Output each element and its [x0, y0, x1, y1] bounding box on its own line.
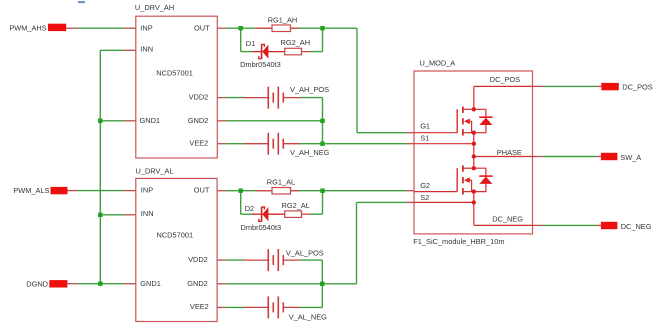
svg-text:PWM_ALS: PWM_ALS — [13, 186, 49, 195]
wire module PHASE internal — [474, 156, 533, 158]
wire VDD2_AL — [217, 259, 322, 261]
node Q1 drain — [472, 107, 476, 111]
transistor Q2 low-side MOSFET — [457, 165, 474, 194]
svg-text:DGND: DGND — [26, 279, 48, 288]
wire RG2_AH branch — [241, 28, 323, 51]
blue cursor mark top — [78, 1, 85, 3]
battery V_AH_NEG — [244, 133, 330, 158]
wire VEE2_AL — [217, 306, 322, 308]
svg-text:VEE2: VEE2 — [189, 138, 208, 147]
node Q1 source — [472, 131, 476, 135]
svg-text:G1: G1 — [420, 122, 430, 131]
svg-text:OUT: OUT — [194, 186, 210, 195]
svg-text:V_AL_POS: V_AL_POS — [286, 248, 324, 257]
wire module source2 column — [473, 192, 475, 226]
svg-text:G2: G2 — [420, 181, 430, 190]
wire DC_POS to port — [533, 85, 602, 87]
svg-text:GND2: GND2 — [188, 116, 209, 125]
svg-text:DC_NEG: DC_NEG — [621, 222, 652, 231]
svg-text:OUT: OUT — [194, 23, 210, 32]
svg-text:INP: INP — [141, 186, 153, 195]
op-amp U_DRV_AH gate driver box — [135, 3, 217, 158]
svg-text:DC_NEG: DC_NEG — [492, 214, 523, 223]
wire OUT_AH net — [217, 28, 414, 133]
wire module DC_POS internal — [474, 86, 533, 109]
wire S1 net — [323, 143, 415, 145]
diode D2 Dmbr0540t3 schottky — [241, 204, 285, 232]
port SW_A — [601, 153, 641, 162]
svg-text:NCD57001: NCD57001 — [157, 231, 194, 240]
wire module G1 internal — [414, 132, 457, 134]
wire DGND to GND1 — [67, 283, 135, 285]
wire RG2_AL branch — [241, 191, 323, 215]
node Q2 drain — [472, 166, 476, 170]
node junction OUT_AH right — [320, 26, 324, 30]
svg-text:D2: D2 — [245, 204, 254, 213]
port PWM_ALS — [13, 186, 67, 195]
svg-text:VEE2: VEE2 — [190, 302, 209, 311]
svg-text:RG1_AH: RG1_AH — [268, 15, 298, 24]
svg-text:RG2_AH: RG2_AH — [281, 38, 311, 47]
wire module G2 internal — [414, 191, 457, 193]
svg-text:VDD2: VDD2 — [189, 93, 209, 102]
wire DC_NEG to port — [533, 224, 601, 226]
svg-text:V_AH_POS: V_AH_POS — [290, 85, 329, 94]
resistor RG2_AH — [281, 38, 311, 55]
svg-text:GND2: GND2 — [187, 279, 208, 288]
module U_MOD_A box — [413, 58, 532, 246]
port DC_NEG — [601, 222, 652, 231]
svg-text:SW_A: SW_A — [620, 153, 641, 162]
node PHASE junction — [472, 154, 476, 158]
svg-text:VDD2: VDD2 — [188, 255, 208, 264]
wire AH common rail — [322, 98, 324, 144]
node junction rail GND2_AH — [320, 119, 324, 123]
svg-text:V_AL_NEG: V_AL_NEG — [289, 313, 327, 322]
svg-text:DC_POS: DC_POS — [622, 82, 652, 91]
wire module S1 internal — [414, 143, 474, 145]
wire PWM_ALS to INP — [68, 190, 136, 192]
wire GND1_AH — [100, 120, 136, 122]
svg-text:U_MOD_A: U_MOD_A — [420, 58, 456, 67]
svg-text:RG1_AL: RG1_AL — [267, 178, 295, 187]
op-amp U_DRV_AL gate driver box — [136, 167, 218, 322]
svg-text:V_AH_NEG: V_AH_NEG — [290, 148, 330, 157]
svg-text:U_DRV_AH: U_DRV_AH — [135, 3, 174, 12]
node S2 junction — [472, 200, 476, 204]
transistor Q1 high-side MOSFET — [457, 107, 474, 136]
diode Q1 body diode — [474, 109, 493, 132]
node junction OUT_AL left — [239, 189, 243, 193]
wire module S2 internal — [414, 201, 474, 203]
wire VDD2_AH — [217, 97, 322, 99]
wire S2 net — [357, 202, 415, 283]
node S1 junction — [472, 142, 476, 146]
wire module DC_NEG internal — [474, 224, 533, 226]
resistor RG2_AL — [282, 201, 311, 217]
wire PWM_AHS to INP — [66, 27, 136, 29]
svg-text:S2: S2 — [420, 193, 429, 202]
svg-text:D1: D1 — [246, 39, 255, 48]
svg-text:PHASE: PHASE — [497, 148, 522, 157]
svg-text:RG2_AL: RG2_AL — [282, 201, 310, 210]
svg-text:DC_POS: DC_POS — [490, 75, 520, 84]
resistor RG1_AH — [256, 15, 299, 31]
svg-text:S1: S1 — [420, 134, 429, 143]
wire AL common rail — [321, 260, 323, 307]
diode D1 Dmbr0540t3 schottky — [240, 39, 285, 69]
wire GND2_AH — [217, 120, 322, 122]
wire ground vertical bus — [99, 50, 101, 283]
wire module phase column — [473, 133, 475, 169]
battery V_AH_POS — [244, 85, 330, 108]
svg-text:U_DRV_AL: U_DRV_AL — [136, 167, 174, 176]
node junction OUT_AL right — [320, 189, 324, 193]
svg-text:Dmbr0540t3: Dmbr0540t3 — [240, 60, 281, 69]
svg-text:INP: INP — [140, 23, 152, 32]
node junction rail GND2_AL — [320, 282, 324, 286]
wire VEE2_AH — [217, 143, 322, 145]
svg-text:INN: INN — [141, 209, 154, 218]
node Q2 source — [472, 189, 476, 193]
battery V_AL_POS — [244, 248, 324, 271]
resistor RG1_AL — [256, 178, 299, 194]
wire OUT_AL net — [217, 190, 414, 192]
node junction GND bus at DGND — [98, 282, 102, 286]
svg-text:GND1: GND1 — [140, 116, 161, 125]
wire PHASE to port SW_A — [533, 156, 601, 158]
port DGND — [26, 279, 67, 288]
svg-text:INN: INN — [140, 45, 153, 54]
svg-text:GND1: GND1 — [140, 279, 161, 288]
wire INN_AH — [100, 49, 136, 51]
node junction GND bus at GND1_AH — [98, 119, 102, 123]
diode Q2 body diode — [474, 168, 493, 191]
port DC_POS — [601, 82, 652, 91]
svg-text:Dmbr0540t3: Dmbr0540t3 — [241, 223, 282, 232]
node junction GND bus at INN_AL — [98, 213, 102, 217]
wire INN_AL — [100, 214, 136, 216]
node junction OUT_AH left — [239, 26, 243, 30]
battery V_AL_NEG — [244, 296, 328, 321]
svg-text:PWM_AHS: PWM_AHS — [9, 24, 46, 33]
svg-text:NCD57001: NCD57001 — [156, 69, 193, 78]
node junction rail VEE2/S1 — [320, 142, 324, 146]
port PWM_AHS — [9, 24, 66, 33]
wire GND2_AL — [217, 283, 356, 285]
svg-text:F1_SiC_module_HBR_10m: F1_SiC_module_HBR_10m — [413, 237, 504, 246]
